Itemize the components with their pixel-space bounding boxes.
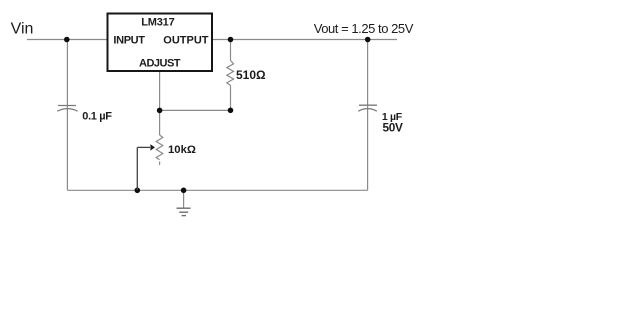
svg-text:Vout = 1.25 to 25V: Vout = 1.25 to 25V bbox=[314, 21, 414, 36]
svg-text:ADJUST: ADJUST bbox=[139, 58, 181, 70]
svg-text:LM317: LM317 bbox=[141, 17, 174, 29]
svg-text:510Ω: 510Ω bbox=[236, 68, 266, 82]
svg-text:0.1 µF: 0.1 µF bbox=[82, 110, 112, 122]
svg-text:OUTPUT: OUTPUT bbox=[163, 35, 209, 47]
svg-text:INPUT: INPUT bbox=[113, 35, 145, 47]
svg-text:10kΩ: 10kΩ bbox=[168, 144, 196, 156]
svg-text:Vin: Vin bbox=[11, 21, 34, 38]
svg-text:50V: 50V bbox=[383, 121, 404, 135]
